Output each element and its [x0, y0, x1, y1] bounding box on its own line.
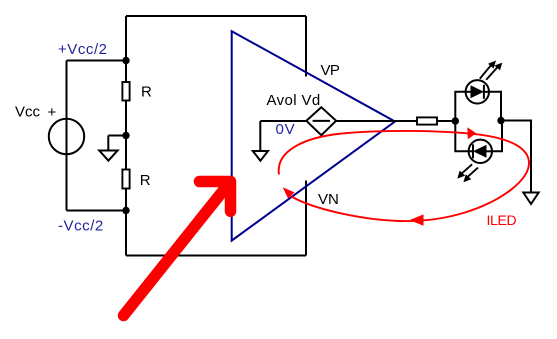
wire: source branch vertical [66, 61, 68, 211]
svg-text:+Vcc/2: +Vcc/2 [58, 41, 108, 58]
svg-text:VP: VP [321, 62, 340, 79]
svg-text:+: + [48, 104, 57, 121]
op-amp U1 triangle [232, 31, 395, 240]
node F (output right) [497, 117, 504, 124]
svg-text:ILED: ILED [487, 212, 517, 228]
dependent source U2 diamond Avol Vd [306, 107, 336, 135]
wire: resistor to node E [437, 120, 455, 122]
node D (-Vcc/2) [122, 207, 129, 214]
ground GND2 (op-amp internal) [253, 121, 268, 161]
wire: VN input wire [305, 181, 307, 256]
svg-text:Avol Vd: Avol Vd [267, 92, 321, 109]
annotation big red arrow [124, 182, 231, 316]
wire: output wire through apex [336, 120, 417, 122]
LED D1 emission arrows [480, 61, 503, 80]
resistor R1 [122, 82, 129, 101]
svg-text:-Vcc/2: -Vcc/2 [58, 218, 104, 235]
svg-text:R: R [141, 83, 152, 100]
arrowhead ILED top (right-pointing) [467, 127, 476, 139]
arrowhead ILED bottom (left-pointing) [410, 214, 424, 225]
arrowhead ILED end (up-left) [283, 187, 295, 199]
source V1 Vcc circle [49, 119, 84, 154]
node A (+Vcc/2) [122, 57, 129, 64]
LED D2 emission arrows [457, 164, 478, 182]
svg-text:Vcc: Vcc [15, 103, 41, 120]
svg-text:0V: 0V [276, 121, 296, 138]
LED D1 (top) [466, 80, 489, 103]
wire: outer loop left edge [125, 16, 127, 256]
wire: 0V wire to dependent source [260, 120, 306, 122]
wire: outer loop bottom edge [126, 255, 306, 257]
wire: outer loop top edge [126, 15, 306, 17]
wire: -Vcc/2 branch horizontal [67, 210, 127, 212]
wire: +Vcc/2 branch horizontal [67, 60, 127, 62]
wire: LED bottom branch [455, 121, 502, 152]
LED D2 (bottom) [469, 140, 492, 163]
svg-text:VN: VN [318, 191, 339, 208]
wire: node F to ground [501, 121, 531, 193]
current loop ILED (red) [279, 131, 529, 221]
ground GND1 (divider) [99, 136, 126, 161]
wire: LED top branch [455, 92, 501, 121]
node B (divider mid) [122, 132, 129, 139]
svg-text:R: R [140, 172, 151, 189]
node E (output left) [452, 117, 459, 124]
resistor R2 [122, 170, 129, 189]
ground GND3 (right) [523, 193, 538, 205]
wire: VP input wire [305, 16, 307, 77]
resistor R3 (output) [417, 117, 437, 124]
